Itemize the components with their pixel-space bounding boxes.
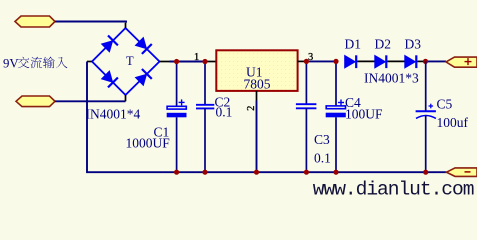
node dot C1/main rail: [174, 59, 179, 64]
svg-text:C3: C3: [314, 132, 330, 147]
plus sign in port P3: [465, 58, 472, 65]
svg-text:1000UF: 1000UF: [126, 136, 171, 151]
node dot C2/ground rail: [202, 170, 207, 175]
bridge diode upper-left: [101, 36, 118, 53]
capacitor C5 wire upper: [425, 61, 427, 111]
capacitor C3 plates: [296, 104, 317, 108]
svg-text:IN4001*4: IN4001*4: [86, 106, 141, 121]
port P4 (- output): [447, 168, 477, 177]
svg-text:100uf: 100uf: [437, 115, 469, 130]
bridge pin stub left: [87, 61, 92, 63]
diode D2: [375, 55, 387, 68]
svg-text:T: T: [126, 54, 134, 68]
capacitor C5 top plate: [416, 110, 436, 112]
port P2 (AC input bottom): [16, 96, 55, 107]
capacitor C5 plus sign: [429, 104, 434, 109]
svg-text:D1: D1: [345, 37, 362, 52]
node dot C1/ground rail: [174, 170, 179, 175]
diode D1: [345, 55, 357, 68]
capacitor C4 top plate (hollow): [326, 106, 345, 109]
svg-text:0.1: 0.1: [216, 105, 233, 120]
svg-text:7805: 7805: [244, 76, 271, 91]
main rail: bridge right to U1 pin1: [170, 61, 207, 63]
svg-text:D2: D2: [375, 37, 392, 52]
wire from P1 to bridge top corner: [55, 22, 126, 23]
D1-D2 lead: [357, 60, 375, 62]
node dot pin2/ground rail: [254, 170, 259, 175]
wire U1 pin3 to D1: [306, 60, 336, 62]
node dot C3/ground rail: [304, 170, 309, 175]
svg-text:IN4001*3: IN4001*3: [364, 71, 419, 86]
svg-text:1: 1: [194, 52, 199, 63]
svg-text:100UF: 100UF: [345, 106, 383, 121]
node dot C5/main rail: [423, 59, 428, 64]
capacitor C4 plus sign: [338, 100, 344, 106]
U1 pin3 lead (right): [298, 60, 307, 62]
capacitor C4 wire upper: [335, 61, 337, 106]
minus sign in port P4: [465, 171, 471, 173]
pin number 2 (rotated): [246, 106, 257, 111]
regulator U1 body: [216, 50, 297, 91]
capacitor C5 wire lower: [425, 116, 427, 173]
port P1 (AC input top): [15, 16, 55, 27]
capacitor C2 wire lower: [204, 108, 206, 172]
node dot C5/ground rail: [423, 170, 428, 175]
svg-text:9V: 9V: [3, 56, 19, 70]
capacitor C2 plates: [196, 105, 214, 109]
bridge pin stub right: [160, 61, 170, 63]
capacitor C3 wire upper: [305, 61, 307, 104]
node dot C4/ground rail: [333, 170, 338, 175]
node dot C3/main rail: [304, 59, 309, 64]
capacitor C4 wire lower: [335, 117, 337, 172]
wire D3 node to port plus: [426, 60, 447, 62]
U1 pin2 wire to ground rail: [256, 101, 258, 173]
label 9V AC input (9V交流输入): [3, 56, 67, 70]
node dot C4/main rail: [333, 59, 338, 64]
bridge diode upper-right: [134, 37, 151, 54]
D2-D3 lead: [387, 60, 405, 62]
svg-text:D3: D3: [405, 37, 422, 52]
svg-text:2: 2: [246, 106, 257, 111]
bridge diode lower-right: [134, 69, 151, 86]
diode D3: [405, 55, 417, 68]
capacitor C3 wire lower: [305, 108, 307, 172]
bridge pin stub bottom: [125, 95, 127, 101]
wire bridge left corner down to ground rail: [87, 62, 447, 173]
U1 pin2 lead (bottom): [256, 91, 258, 101]
bridge rectifier T : diamond body: [92, 28, 160, 95]
D3 lead to node: [417, 60, 425, 62]
capacitor C5 bottom plate (curved): [416, 116, 436, 119]
port P3 (+ output): [446, 57, 477, 67]
capacitor C1 wire upper: [176, 62, 178, 107]
capacitor C4 bottom plate (solid): [326, 113, 346, 118]
svg-text:C5: C5: [437, 97, 453, 112]
capacitor C1 top plate (hollow): [167, 106, 186, 109]
capacitor C1 wire lower: [176, 117, 178, 172]
U1 pin1 lead: [206, 61, 216, 63]
capacitor C1 bottom plate (solid): [167, 113, 187, 118]
capacitor C1 plus sign: [179, 99, 185, 105]
capacitor C2 wire upper: [204, 62, 206, 105]
bridge pin stub top: [125, 23, 127, 28]
node dot C2/main rail: [202, 59, 207, 64]
bridge diode lower-left: [101, 70, 118, 87]
wire from P2 to bridge bottom corner: [55, 100, 126, 102]
svg-text:0.1: 0.1: [314, 150, 331, 165]
svg-text:www.dianlut.com: www.dianlut.com: [313, 179, 474, 198]
